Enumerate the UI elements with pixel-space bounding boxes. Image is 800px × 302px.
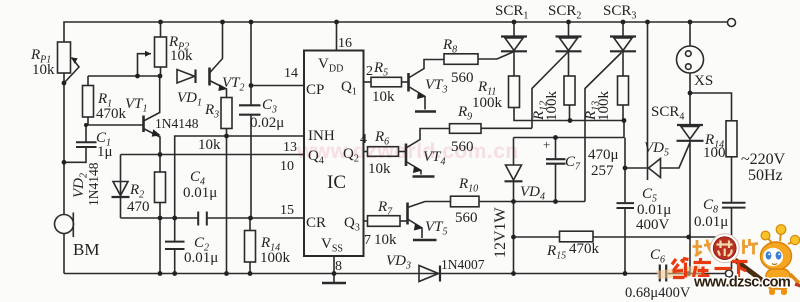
svg-text:1N4148: 1N4148 <box>155 116 199 131</box>
svg-text:SCR3: SCR3 <box>603 3 636 22</box>
svg-text:10k: 10k <box>374 232 397 248</box>
svg-text:VT2: VT2 <box>222 75 245 94</box>
svg-text:8: 8 <box>335 259 342 274</box>
svg-text:2: 2 <box>366 64 373 79</box>
svg-text:SCR4: SCR4 <box>651 104 684 123</box>
svg-text:R10: R10 <box>458 176 478 195</box>
svg-text:C3: C3 <box>262 97 277 116</box>
svg-text:10k: 10k <box>368 161 391 177</box>
svg-text:1N4007: 1N4007 <box>441 257 485 272</box>
svg-text:INH: INH <box>308 128 335 144</box>
svg-text:470: 470 <box>127 199 150 215</box>
svg-text:50Hz: 50Hz <box>748 167 783 184</box>
svg-text:560: 560 <box>455 210 478 226</box>
svg-text:R5: R5 <box>373 60 388 79</box>
svg-text:0.01μ: 0.01μ <box>694 214 728 230</box>
svg-text:10: 10 <box>280 159 294 174</box>
svg-text:0.01μ: 0.01μ <box>637 202 671 218</box>
svg-text:560: 560 <box>451 70 474 86</box>
svg-text:100k: 100k <box>260 250 291 266</box>
svg-text:www.dzsc.com: www.dzsc.com <box>693 275 790 291</box>
svg-text:IC: IC <box>327 172 346 193</box>
svg-text:Q3: Q3 <box>344 215 360 234</box>
svg-text:VD5: VD5 <box>644 140 669 159</box>
svg-text:VT1: VT1 <box>125 96 148 115</box>
svg-text:0.68μ400V: 0.68μ400V <box>625 285 691 301</box>
svg-text:12V1W: 12V1W <box>492 206 509 258</box>
svg-text:0.01μ: 0.01μ <box>184 250 218 266</box>
svg-text:VSS: VSS <box>321 236 343 255</box>
svg-text:R15: R15 <box>546 243 566 262</box>
svg-text:C6: C6 <box>650 247 665 266</box>
svg-text:SCR1: SCR1 <box>495 3 528 22</box>
svg-text:10k: 10k <box>372 89 395 105</box>
svg-text:14: 14 <box>284 66 298 81</box>
svg-text:10k: 10k <box>32 62 55 78</box>
svg-text:400V: 400V <box>636 217 670 233</box>
svg-text:~220V: ~220V <box>741 151 786 168</box>
svg-text:Q1: Q1 <box>341 79 357 98</box>
svg-text:100k: 100k <box>472 95 503 111</box>
svg-text:0.02μ: 0.02μ <box>250 115 284 131</box>
svg-text:R7: R7 <box>377 199 393 218</box>
svg-text:560: 560 <box>451 139 474 155</box>
svg-text:7: 7 <box>364 233 371 248</box>
svg-text:CR: CR <box>306 215 326 231</box>
svg-text:+: + <box>543 137 550 152</box>
svg-text:VDD: VDD <box>318 56 343 75</box>
svg-text:SCR2: SCR2 <box>548 3 581 22</box>
svg-text:100k: 100k <box>544 91 560 122</box>
svg-text:470k: 470k <box>569 241 600 257</box>
svg-text:R6: R6 <box>374 129 389 148</box>
svg-text:R9: R9 <box>457 104 472 123</box>
svg-text:VD3: VD3 <box>386 253 411 272</box>
svg-text:C7: C7 <box>565 154 581 173</box>
svg-text:100k: 100k <box>596 91 612 122</box>
svg-text:4: 4 <box>360 132 367 147</box>
svg-text:1N4148: 1N4148 <box>86 162 101 206</box>
svg-text:VD4: VD4 <box>520 184 545 203</box>
svg-text:VT5: VT5 <box>425 219 448 238</box>
svg-text:10k: 10k <box>170 48 193 64</box>
svg-text:C8: C8 <box>703 197 718 216</box>
svg-text:VT3: VT3 <box>425 77 448 96</box>
svg-text:16: 16 <box>338 36 352 51</box>
svg-text:10k: 10k <box>198 137 221 153</box>
svg-text:15: 15 <box>280 203 294 218</box>
svg-text:R2: R2 <box>129 182 144 201</box>
svg-text:1μ: 1μ <box>97 144 113 160</box>
svg-text:470μ: 470μ <box>588 147 619 163</box>
svg-text:0.01μ: 0.01μ <box>183 185 217 201</box>
svg-text:XS: XS <box>694 73 713 89</box>
svg-text:VD1: VD1 <box>177 90 202 109</box>
svg-text:R8: R8 <box>442 37 457 56</box>
svg-text:CP: CP <box>306 82 324 98</box>
svg-text:257: 257 <box>591 163 614 179</box>
svg-text:BM: BM <box>73 240 99 259</box>
svg-text:13: 13 <box>283 140 297 155</box>
svg-text:R3: R3 <box>204 102 219 121</box>
svg-text:470k: 470k <box>96 106 127 122</box>
svg-text:100: 100 <box>703 145 726 161</box>
